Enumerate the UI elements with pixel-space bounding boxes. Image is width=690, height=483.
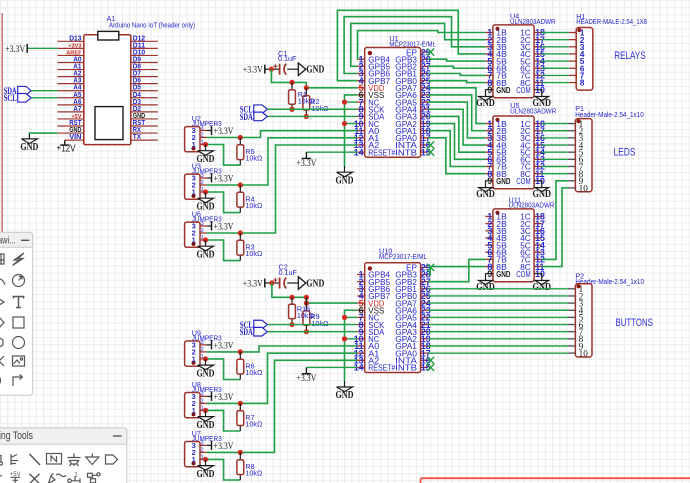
power +3.3V at C2 bbox=[264, 279, 266, 288]
U6 pin 3 bbox=[200, 225, 207, 227]
wire SCL flag to A1 A5 bbox=[31, 97, 57, 99]
U2 pin1 indicator dot bbox=[192, 147, 196, 151]
svg-text:D13: D13 bbox=[69, 33, 81, 42]
icon image bbox=[13, 356, 25, 366]
wire U1 GPB2 to U4 6B bbox=[428, 66, 485, 68]
wire U10 pin 17 to P2 pin 10 bbox=[428, 352, 568, 354]
connector U8 JUMPER3 body bbox=[185, 393, 200, 418]
wire U8 pin2 to A-pin (address select) bbox=[207, 353, 357, 403]
icon line bbox=[30, 454, 41, 465]
A1 left pin RST bbox=[57, 125, 83, 127]
U1 no-connect X on EP bbox=[427, 48, 434, 55]
wire U11 8C to P1 pin 10 bbox=[542, 188, 568, 267]
connector P1 body bbox=[575, 119, 592, 192]
U4 pin 17 2C bbox=[534, 39, 542, 41]
A1 right pin D6 bbox=[131, 83, 158, 85]
junction U1 NC pin10 bbox=[342, 121, 347, 126]
icon polyline arrow bbox=[13, 375, 23, 387]
svg-text:RELAYS: RELAYS bbox=[614, 50, 645, 62]
svg-text:GND: GND bbox=[306, 279, 324, 290]
svg-text:15: 15 bbox=[421, 147, 431, 157]
junction U6 pin2 / R3 top bbox=[238, 230, 243, 235]
A1 right pin GND bbox=[131, 118, 158, 120]
wire U1 GPA6 to U5 2B bbox=[428, 95, 485, 131]
power +3.3V at A1 bbox=[26, 44, 28, 53]
U11 pin 4 4B bbox=[485, 237, 493, 239]
icon net flag bbox=[106, 455, 118, 464]
P1 pin 9 bbox=[568, 180, 576, 182]
wire SCL to U1 SCK bbox=[267, 108, 357, 110]
A1 left pin +3V3 bbox=[57, 47, 83, 49]
svg-text:0.1uF: 0.1uF bbox=[278, 54, 297, 63]
junction C1 / VDD branch bbox=[269, 67, 274, 72]
U1 pin 10 NC bbox=[357, 123, 365, 125]
wire U4 1C to H1 pin 1 bbox=[542, 32, 569, 34]
svg-text:BUTTONS: BUTTONS bbox=[616, 317, 653, 329]
junction R9 bottom on SDA wire bbox=[304, 329, 309, 334]
wire U1 RESET# to +3.3V bbox=[306, 151, 357, 153]
power +3.3V at U6 pin3 bbox=[211, 222, 213, 231]
ground GND flag below U10 bbox=[337, 381, 353, 392]
U10 pin 4 GPB7 bbox=[357, 295, 365, 297]
wire U5 7C to P1 pin 7 bbox=[542, 166, 568, 168]
H1 pin 1 bbox=[569, 32, 577, 34]
svg-text:GND: GND bbox=[496, 176, 510, 186]
icon diamond (clipped) bbox=[0, 317, 4, 328]
U8 pin 3 bbox=[200, 395, 207, 397]
wire A1 GND pin to ground bbox=[29, 132, 57, 135]
wire U5 3C to P1 pin 3 bbox=[542, 137, 568, 139]
junction U8 pin2 / R7 top bbox=[238, 401, 243, 406]
svg-text:GND: GND bbox=[197, 249, 215, 260]
U11 pin 8 8B bbox=[485, 266, 493, 268]
svg-text:SDA: SDA bbox=[240, 328, 253, 338]
A1 right pin TX bbox=[131, 139, 158, 141]
H1 pin 2 bbox=[569, 39, 577, 41]
svg-text:+3.3V: +3.3V bbox=[243, 66, 263, 76]
icon bus entry bbox=[11, 454, 18, 465]
power +3.3V at U1 RESET# bbox=[302, 152, 311, 158]
icon drag (clipped) bbox=[0, 376, 1, 386]
U7 pin 3 bbox=[200, 444, 207, 446]
U5 pin 2 2B bbox=[485, 130, 493, 132]
icon triangle (clipped) bbox=[0, 297, 4, 307]
wire U5 2C to P1 pin 2 bbox=[542, 130, 568, 132]
U7 pin1 indicator dot bbox=[192, 461, 196, 465]
power +3.3V at U2 pin3 bbox=[211, 126, 213, 135]
U10 pin 24 GPA7 bbox=[421, 302, 429, 304]
svg-text:+3.3V: +3.3V bbox=[214, 174, 234, 184]
A1 left pin A5 bbox=[57, 97, 83, 99]
junction R2 bottom on SDA wire bbox=[304, 114, 309, 119]
U10 pin 5 VDD bbox=[357, 302, 365, 304]
U1 no-connect X on INTA bbox=[427, 141, 434, 148]
A1 right pin D5 bbox=[131, 90, 158, 92]
svg-text:3: 3 bbox=[201, 125, 204, 131]
svg-text:LEDS: LEDS bbox=[614, 147, 636, 159]
U6 pin 2 bbox=[200, 232, 207, 234]
wire U1 GPA4 to U5 4B bbox=[428, 109, 485, 145]
svg-text:HEADER-MALE-2.54_1X8: HEADER-MALE-2.54_1X8 bbox=[576, 17, 647, 26]
U4 pin 4 4B bbox=[485, 53, 493, 55]
wire U4 7C to H1 pin 7 bbox=[542, 74, 569, 76]
U9 pin 1 bbox=[200, 358, 207, 360]
U4 pin 15 4C bbox=[534, 53, 542, 55]
icon canvas (clipped) bbox=[0, 254, 4, 264]
wire U4 6C to H1 pin 6 bbox=[542, 67, 569, 69]
resistor R16 10k pullup on SCL bbox=[291, 297, 293, 324]
svg-text:1: 1 bbox=[192, 355, 196, 364]
wire U1 VSS and NC pins to ground bbox=[345, 95, 358, 166]
svg-text:3: 3 bbox=[201, 173, 204, 179]
net flag SDA at A1 A4 bbox=[18, 86, 32, 95]
U8 pin 2 bbox=[200, 402, 207, 404]
U4 pin 5 5B bbox=[485, 60, 493, 62]
svg-text:GND: GND bbox=[306, 65, 324, 76]
U9 pin1 indicator dot bbox=[192, 361, 196, 365]
U11 pin 15 4C bbox=[534, 237, 542, 239]
junction R16 top bbox=[289, 295, 294, 300]
wire U10 GPB3 to U11 8B bbox=[428, 267, 485, 275]
wire U8 pin1 to GND and R7 bottom bbox=[206, 409, 207, 411]
U3 pin 3 bbox=[200, 177, 207, 179]
svg-text:GND: GND bbox=[336, 390, 354, 401]
wire U9 pin3 to +3.3V bbox=[207, 344, 212, 346]
U10 pin 19 GPA2 bbox=[421, 338, 429, 340]
junction R1 bottom on SCL wire bbox=[289, 107, 294, 112]
U1 pin 24 GPA7 bbox=[421, 87, 429, 89]
power +12V at A1 VIN bbox=[60, 140, 69, 145]
H1 pin 5 bbox=[569, 60, 577, 62]
U4 pin 14 5C bbox=[534, 60, 542, 62]
wire U1 GPA5 to U5 3B bbox=[428, 102, 485, 138]
H1 pin 6 bbox=[569, 67, 577, 69]
P1 pin 3 bbox=[568, 137, 576, 139]
wire SCL to U10 SCK bbox=[267, 324, 357, 326]
ground GND flag at C2 bbox=[298, 277, 306, 290]
U1 pin 14 RESET# bbox=[357, 151, 365, 153]
U1 pin 2 GPB5 bbox=[357, 65, 365, 67]
icon bezier (clipped) bbox=[0, 356, 4, 366]
U1 pin 9 SDA bbox=[357, 115, 365, 117]
junction U9 pin1 bbox=[203, 356, 208, 361]
U4 pin 13 6C bbox=[534, 67, 542, 69]
resistor R1 10k pullup on SCL bbox=[291, 82, 293, 109]
power +3.3V at U8 pin3 bbox=[211, 392, 213, 401]
connector U9 JUMPER3 body bbox=[185, 341, 200, 366]
U6 pin 1 bbox=[200, 239, 207, 241]
svg-text:10kΩ: 10kΩ bbox=[245, 368, 263, 377]
U7 pin 2 bbox=[200, 451, 207, 453]
wire +3.3V to C1 bbox=[265, 68, 280, 70]
svg-text:ULN2803ADWR: ULN2803ADWR bbox=[510, 107, 556, 116]
U5 pin 7 7B bbox=[485, 166, 493, 168]
svg-text:10: 10 bbox=[579, 348, 589, 358]
ground GND flag at U7 pin1 bbox=[198, 459, 214, 470]
svg-text:+12V: +12V bbox=[57, 143, 76, 154]
U1 no-connect X on INTB bbox=[427, 149, 434, 156]
P2 pin 9 bbox=[568, 345, 576, 347]
icon pin (clipped) bbox=[0, 475, 2, 477]
A1 right pin D8 bbox=[131, 69, 158, 71]
icon square bbox=[13, 317, 24, 328]
svg-text:+3.3V: +3.3V bbox=[214, 127, 234, 137]
wire U10 pin 26 to P2 pin 1 bbox=[428, 288, 568, 290]
P1 pin 8 bbox=[568, 173, 576, 175]
wire U10 pin 25 to P2 pin 2 bbox=[428, 295, 568, 297]
U8 pin1 indicator dot bbox=[192, 412, 196, 416]
U11 pin 6 6B bbox=[485, 251, 493, 253]
svg-text:GND: GND bbox=[197, 469, 215, 480]
svg-text:2: 2 bbox=[201, 447, 204, 453]
svg-text:+3.3V: +3.3V bbox=[243, 279, 263, 289]
svg-text:GND: GND bbox=[476, 282, 495, 293]
U5 pin 6 6B bbox=[485, 158, 493, 160]
A1 left pin GND bbox=[57, 132, 83, 134]
wire U3 pin1 to GND and R4 bottom bbox=[206, 191, 207, 193]
junction U7 pin1 bbox=[203, 457, 208, 462]
svg-text:Arduino Nano IoT (header only): Arduino Nano IoT (header only) bbox=[109, 20, 195, 29]
U10 pin 11 A0 bbox=[357, 345, 365, 347]
svg-text:1: 1 bbox=[192, 188, 196, 197]
resistor R7 10k pulldown bbox=[239, 403, 241, 431]
U10 pin 10 NC bbox=[357, 338, 365, 340]
U11 GND flag at pin 9 bbox=[479, 281, 493, 285]
svg-text:3: 3 bbox=[201, 340, 204, 346]
wire U5 1C to P1 pin 1 bbox=[542, 123, 568, 125]
junction R9 top bbox=[304, 295, 309, 300]
P2 pin 6 bbox=[568, 324, 576, 326]
U4 GND flag at pin 10 bbox=[535, 97, 549, 101]
U11 GND flag at pin 10 bbox=[535, 281, 549, 285]
U10 no-connect X on INTB bbox=[427, 364, 434, 371]
svg-text:RESET#: RESET# bbox=[368, 147, 395, 157]
U5 pin 11 8C bbox=[534, 173, 542, 175]
U11 pin 16 3C bbox=[534, 230, 542, 232]
junction R1 top bbox=[289, 80, 294, 85]
wire U5 4C to P1 pin 4 bbox=[542, 144, 568, 146]
wire U2 pin2 to A-pin (address select) bbox=[207, 131, 357, 138]
IC U10 MCP23017-E/ML body bbox=[365, 263, 421, 373]
wire U7 pin3 to +3.3V bbox=[207, 444, 212, 446]
connector P2 body bbox=[575, 284, 592, 357]
svg-text:+3.3V: +3.3V bbox=[5, 45, 25, 55]
U5 pin 8 8B bbox=[485, 173, 493, 175]
svg-text:+3.3V: +3.3V bbox=[214, 222, 234, 232]
icon pen bbox=[49, 473, 67, 483]
wire C2 to GND flag bbox=[287, 282, 298, 284]
svg-text:10: 10 bbox=[579, 183, 589, 193]
U1 pin 19 GPA2 bbox=[421, 123, 429, 125]
svg-text:3: 3 bbox=[201, 440, 204, 446]
wire U10 pin 21 to P2 pin 6 bbox=[428, 324, 568, 326]
wire U1 GPB3 to U4 5B bbox=[428, 59, 485, 61]
svg-text:GND: GND bbox=[336, 175, 354, 186]
svg-text:TX: TX bbox=[133, 132, 141, 141]
wire U4 5C to H1 pin 5 bbox=[542, 60, 569, 62]
U1 pin 25 GPB0 bbox=[421, 80, 429, 82]
junction U8 pin1 bbox=[203, 408, 208, 413]
P2 pin 4 bbox=[568, 309, 576, 311]
svg-text:GND: GND bbox=[496, 269, 510, 279]
U5 pin 14 5C bbox=[534, 151, 542, 153]
A1 left pin A1 bbox=[57, 69, 83, 71]
IC U5 ULN2803ADWR body bbox=[493, 116, 534, 189]
A1 right pin D3 bbox=[131, 104, 158, 106]
wire U9 pin2 to A-pin (address select) bbox=[207, 346, 357, 352]
U5 pin 18 1C bbox=[534, 123, 542, 125]
wire VDD feed U1: junction down and right to VDD pin bbox=[271, 69, 357, 88]
P2 pin 3 bbox=[568, 302, 576, 304]
U3 pin 2 bbox=[200, 184, 207, 186]
U4 pin1 indicator dot bbox=[496, 27, 500, 31]
U5 GND flag at pin 10 bbox=[535, 188, 549, 192]
H1 pin1 indicator dot bbox=[577, 28, 581, 32]
junction VDD corner U10 bbox=[304, 301, 309, 306]
wire U3 pin3 to +3.3V bbox=[207, 177, 212, 179]
U5 GND flag at pin 9 bbox=[479, 188, 493, 192]
P1 pin 5 bbox=[568, 151, 576, 153]
U10 pin 12 A1 bbox=[357, 352, 365, 354]
U11 pin 18 1C bbox=[534, 216, 542, 218]
svg-text:+3.3V: +3.3V bbox=[214, 442, 234, 452]
icon group pin bbox=[88, 473, 101, 483]
svg-text:GND: GND bbox=[197, 368, 215, 379]
junction C2 / VDD branch bbox=[269, 280, 274, 285]
U1 pin 15 INTB bbox=[421, 151, 429, 153]
wire U8 pin3 to +3.3V bbox=[207, 395, 212, 397]
svg-text:2: 2 bbox=[201, 228, 204, 234]
U9 pin 3 bbox=[200, 344, 207, 346]
wire U4 2C to H1 pin 2 bbox=[542, 39, 569, 41]
svg-text:15: 15 bbox=[421, 363, 431, 373]
net flag SCL (top) bbox=[254, 105, 267, 114]
svg-text:+3.3V: +3.3V bbox=[214, 341, 234, 351]
wire +3.3V to A1 +3V3 pin bbox=[27, 47, 57, 49]
A1 USB connector rectangle bbox=[98, 31, 119, 40]
P2 pin 1 bbox=[568, 288, 576, 290]
svg-text:VIN: VIN bbox=[69, 132, 81, 141]
svg-text:SDA: SDA bbox=[240, 113, 253, 123]
U11 pin 13 6C bbox=[534, 251, 542, 253]
icon hexagon (clipped) bbox=[0, 337, 3, 348]
wire U3 pin2 to A-pin (address select) bbox=[207, 138, 357, 185]
wire U5 5C to P1 pin 5 bbox=[542, 151, 568, 153]
junction U1 NC pin7 bbox=[342, 100, 347, 105]
wire U5 6C to P1 pin 6 bbox=[542, 158, 568, 160]
P1 pin 4 bbox=[568, 144, 576, 146]
wire U7 pin1 to GND and R8 bottom bbox=[206, 458, 207, 460]
U1 pin 29 EP bbox=[421, 51, 429, 53]
U1 pin 8 SCK bbox=[357, 108, 365, 110]
connector U3 JUMPER3 body bbox=[185, 174, 200, 199]
wire U1 GPB0 to U4 8B bbox=[428, 81, 485, 83]
U4 pin 7 7B bbox=[485, 74, 493, 76]
U1 pin 3 GPB6 bbox=[357, 73, 365, 75]
U10 pin 29 EP bbox=[421, 266, 429, 268]
U6 pin1 indicator dot bbox=[192, 242, 196, 246]
U2 pin 3 bbox=[200, 130, 207, 132]
A1 left pin A7 bbox=[57, 111, 83, 113]
svg-text:3: 3 bbox=[201, 391, 204, 397]
U11 pin 11 8C bbox=[534, 266, 542, 268]
wire SDA to U1 SDA bbox=[267, 115, 357, 117]
net flag SCL at A1 A5 bbox=[18, 93, 32, 102]
ground GND flag at C1 bbox=[298, 63, 306, 76]
U1 pin 7 NC bbox=[357, 101, 365, 103]
svg-text:+3.3V: +3.3V bbox=[296, 159, 316, 169]
wire SDA flag to A1 A4 bbox=[31, 90, 57, 92]
U1 pin 11 A0 bbox=[357, 130, 365, 132]
svg-text:COM: COM bbox=[516, 85, 531, 95]
U8 pin 1 bbox=[200, 409, 207, 411]
U5 pin 13 6C bbox=[534, 158, 542, 160]
capacitor C2 0.1uF bbox=[279, 278, 281, 289]
wire U2 pin1 to GND and R5 bottom bbox=[206, 144, 207, 146]
U1 pin 6 VSS bbox=[357, 94, 365, 96]
U1 pin 13 A2 bbox=[357, 144, 365, 146]
U11 pin 3 3B bbox=[485, 230, 493, 232]
svg-text:10kΩ: 10kΩ bbox=[245, 201, 263, 210]
junction R2 top / VDD bbox=[304, 85, 309, 90]
svg-text:COM: COM bbox=[516, 176, 531, 186]
U1 pin 21 GPA4 bbox=[421, 108, 429, 110]
svg-text:INTB: INTB bbox=[395, 363, 417, 373]
wire +3.3V to C2 bbox=[265, 282, 280, 284]
connector H1 body bbox=[576, 28, 593, 91]
wire U1 GPA0 to U5 8B bbox=[428, 138, 485, 174]
resistor R9 10k pullup on SDA bbox=[305, 297, 307, 331]
ground GND flag at U2 pin1 bbox=[198, 145, 214, 156]
panel Drawing Tools palette bbox=[0, 232, 33, 395]
P1 pin1 indicator dot bbox=[577, 119, 581, 123]
wire U1 GPA2 to U5 6B bbox=[428, 124, 485, 160]
wire U1 GPA7 to U5 1B bbox=[428, 88, 485, 124]
icon ground triangle bbox=[86, 454, 99, 465]
wire U10 RESET# to +3.3V bbox=[306, 366, 357, 368]
A1 left pin VIN bbox=[65, 139, 84, 141]
U10 pin 28 GPB3 bbox=[421, 274, 429, 276]
IC U1 MCP23017-E/ML body bbox=[365, 48, 421, 158]
wire U4 3C to H1 pin 3 bbox=[542, 46, 569, 48]
P2 pin 7 bbox=[568, 331, 576, 333]
junction U3 pin1 bbox=[203, 189, 208, 194]
power +3.3V at U3 pin3 bbox=[211, 174, 213, 183]
svg-text:Header-Male-2.54_1x10: Header-Male-2.54_1x10 bbox=[575, 110, 644, 119]
wire U11 7C to P1 pin 9 bbox=[542, 181, 568, 260]
wire U5 8C to P1 pin 8 bbox=[542, 173, 568, 175]
icon no-connect X bbox=[30, 474, 40, 483]
A1 right pin D4 bbox=[131, 97, 158, 99]
U5 pin1 indicator dot bbox=[496, 118, 500, 122]
capacitor C1 0.1uF bbox=[279, 64, 281, 75]
U1 pin 1 GPB4 bbox=[357, 58, 365, 60]
U11 pin 7 7B bbox=[485, 258, 493, 260]
U11 pin 1 1B bbox=[485, 216, 493, 218]
U5 pin 5 5B bbox=[485, 151, 493, 153]
wire U1 GPB1 to U4 7B bbox=[428, 74, 485, 76]
H1 pin 3 bbox=[569, 46, 577, 48]
svg-text:1: 1 bbox=[192, 455, 196, 464]
wire SDA to U10 SDA bbox=[267, 331, 357, 333]
U5 pin 15 4C bbox=[534, 144, 542, 146]
U1 pin1 indicator dot bbox=[368, 51, 372, 55]
U11 pin 17 2C bbox=[534, 223, 542, 225]
A1 right pin D2 bbox=[131, 111, 158, 113]
junction U3 pin2 / R4 top bbox=[238, 182, 243, 187]
resistor R6 10k pulldown bbox=[239, 352, 241, 380]
A1 right pin D12 bbox=[131, 40, 158, 42]
